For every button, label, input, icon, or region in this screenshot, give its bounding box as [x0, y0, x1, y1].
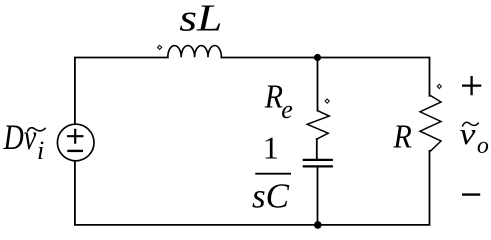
label tilde over v of Dv — [27, 128, 45, 132]
capacitor C bottom plate — [304, 165, 332, 167]
pin marker diamond near inductor — [158, 45, 162, 49]
label D v (source label) — [3, 117, 37, 157]
label plus (output polarity) — [462, 76, 481, 95]
label R — [392, 118, 411, 155]
svg-text:1: 1 — [263, 129, 279, 165]
pin marker diamond near R — [437, 84, 441, 88]
label fraction bar — [255, 173, 291, 175]
label Re — [264, 77, 284, 115]
node N1 (top junction dot) — [314, 54, 321, 61]
wire top-middle segment — [221, 57, 317, 59]
resistor Re zigzag — [307, 111, 329, 140]
svg-text:Dv: Dv — [3, 117, 37, 157]
wire top-right segment — [318, 58, 430, 96]
node N2 (bottom junction dot) — [314, 221, 322, 229]
label v (output voltage) — [460, 117, 476, 151]
voltage source plus sign — [67, 129, 84, 144]
wire resistor Re to capacitor — [316, 139, 318, 159]
resistor R zigzag — [420, 96, 441, 151]
label minus (output polarity) — [462, 193, 480, 195]
wire capacitor to bottom — [317, 167, 319, 225]
svg-text:i: i — [37, 136, 44, 165]
svg-text:o: o — [477, 133, 489, 159]
wire top-left segment — [75, 58, 168, 125]
wire left-bottom segment — [75, 161, 318, 225]
label sL — [179, 0, 222, 40]
wire middle branch top — [317, 58, 319, 111]
capacitor C top plate — [304, 159, 332, 161]
svg-text:sC: sC — [252, 177, 290, 216]
pin marker diamond near Re — [325, 99, 329, 103]
wire bottom-right segment — [318, 151, 430, 225]
label tilde over v of vo — [462, 122, 478, 126]
voltage source minus sign — [67, 150, 83, 152]
inductor L1 — [168, 46, 222, 58]
svg-text:sL: sL — [179, 0, 222, 40]
voltage source V1 circle — [57, 124, 94, 161]
svg-text:e: e — [281, 95, 293, 124]
svg-text:R: R — [392, 118, 411, 155]
